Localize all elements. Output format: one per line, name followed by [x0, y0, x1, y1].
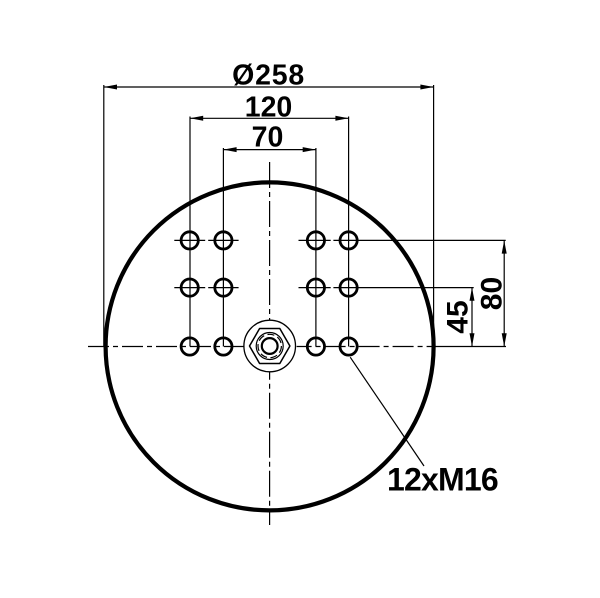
- horizontal centerline: [88, 346, 506, 348]
- svg-text:120: 120: [245, 92, 293, 124]
- hole crosshair r2c3: [299, 287, 331, 289]
- arrow 80 bottom: [502, 333, 507, 346]
- arrow 45 top: [470, 288, 475, 301]
- bolt hole r1c4: [340, 232, 357, 249]
- arrow 120 right: [335, 116, 348, 121]
- column line 3 (ext of 70 right): [315, 148, 317, 347]
- dimension line 70: [223, 149, 316, 151]
- hole crosshair r1c1: [174, 239, 205, 241]
- dimension line 80: [503, 240, 505, 346]
- nut bore circle: [262, 338, 278, 354]
- flange outline circle: [106, 182, 434, 510]
- arrow D258 left: [104, 85, 117, 90]
- bolt hole r1c2: [215, 232, 232, 249]
- hole crosshair r1c2: [208, 239, 238, 241]
- bolt hole r2c1: [181, 279, 198, 296]
- center nut washer circle: [244, 320, 296, 372]
- bolt hole r3c2: [215, 338, 232, 355]
- arrow 45 bottom: [470, 333, 475, 346]
- svg-text:12xM16: 12xM16: [387, 462, 498, 498]
- bolt hole r3c3: [307, 338, 324, 355]
- column line 4 (ext of 120 right): [348, 117, 350, 347]
- dimension line 45: [471, 288, 473, 347]
- center nut hexagon: [250, 329, 290, 364]
- svg-text:70: 70: [252, 121, 284, 153]
- hole crosshair r2c2: [208, 287, 238, 289]
- arrow 80 top: [502, 240, 507, 253]
- hole crosshair r2c1: [174, 287, 205, 289]
- svg-text:45: 45: [441, 300, 474, 333]
- bolt hole r1c1: [181, 232, 198, 249]
- column line 1 (ext of 120 left): [189, 117, 191, 347]
- svg-text:Ø258: Ø258: [232, 59, 305, 91]
- column line 2 (ext of 70 left): [222, 148, 224, 347]
- arrow 70 left: [223, 147, 236, 152]
- hole crosshair r2c4 + extension to 45 dim: [333, 287, 473, 289]
- bolt hole r1c3: [307, 232, 324, 249]
- extension line right (D258): [433, 85, 435, 347]
- bolt hole r2c3: [307, 279, 324, 296]
- bolt hole r2c2: [215, 279, 232, 296]
- nut thread dashed circle: [258, 334, 281, 357]
- arrow 120 left: [190, 116, 203, 121]
- svg-text:80: 80: [475, 277, 508, 310]
- leader line 12xM16: [350, 357, 424, 466]
- bolt hole r3c1: [181, 338, 198, 355]
- extension line left (D258): [103, 85, 105, 347]
- vertical centerline: [269, 162, 271, 525]
- hole crosshair r1c3: [299, 239, 331, 241]
- dimension line D258: [104, 86, 434, 88]
- arrow D258 right: [420, 85, 433, 90]
- nut chamfer circle: [256, 333, 283, 360]
- dimension line 120: [190, 117, 349, 119]
- bolt hole r3c4: [340, 338, 357, 355]
- arrow 70 right: [303, 147, 316, 152]
- bolt hole r2c4: [340, 279, 357, 296]
- hole crosshair r1c4 + extension to 80 dim: [333, 239, 505, 241]
